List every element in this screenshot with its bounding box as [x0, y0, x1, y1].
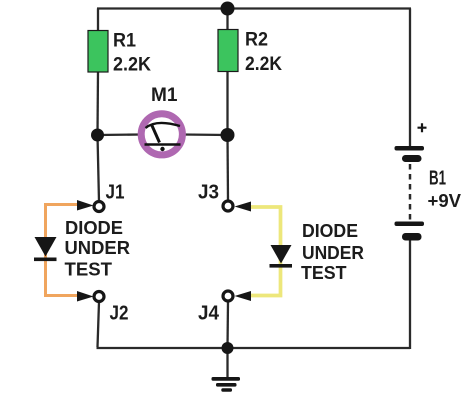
wire orange test lead (left DUT)	[46, 205, 82, 296]
battery B1 bottom cell long plate	[395, 222, 425, 227]
node C junction (right of meter)	[221, 128, 235, 142]
svg-text:J3: J3	[198, 182, 219, 204]
terminal J3	[223, 201, 233, 211]
wire node A down to J1	[98, 135, 100, 202]
wire R1 bottom to node A	[96, 71, 99, 135]
svg-text:R1: R1	[113, 30, 136, 52]
wire J4 down to node D	[226, 301, 229, 348]
svg-text:DIODE: DIODE	[302, 220, 358, 241]
svg-text:2.2K: 2.2K	[245, 53, 282, 75]
svg-text:B1: B1	[429, 168, 446, 190]
wire node C down to J3	[226, 135, 229, 201]
svg-text:+9V: +9V	[428, 190, 462, 211]
meter M1 body (purple ring)	[141, 114, 182, 155]
terminal J4	[223, 291, 233, 301]
wire top-left vertical into R1	[97, 9, 99, 32]
svg-text:UNDER: UNDER	[302, 242, 364, 263]
meter M1 bottom chord	[145, 143, 181, 145]
svg-text:J4: J4	[198, 303, 220, 325]
svg-text:M1: M1	[151, 84, 178, 106]
svg-text:TEST: TEST	[301, 262, 347, 283]
arrow into J1	[77, 200, 94, 211]
battery B1 top cell long plate	[395, 146, 425, 151]
wire ground stub from node D	[226, 348, 228, 377]
battery B1 bottom cell short plate	[402, 233, 422, 241]
diode under test right (cathode bar)	[270, 264, 293, 268]
battery B1 dashed link	[409, 164, 412, 221]
wire top horizontal	[97, 7, 411, 9]
terminal J1	[94, 202, 104, 212]
arrow into J4	[235, 291, 252, 301]
wire right vertical upper (top corner to battery)	[409, 9, 411, 148]
wire top node B down into R2	[226, 9, 228, 31]
arrow into J2	[77, 291, 94, 302]
resistor R2 body	[218, 30, 238, 72]
terminal J2	[94, 292, 104, 302]
svg-text:R2: R2	[245, 29, 268, 51]
wire R2 bottom to node C	[226, 71, 228, 135]
wire node A to meter M1 left terminal	[98, 133, 143, 136]
resistor R1 body	[88, 31, 108, 73]
meter M1 scale arc	[146, 123, 181, 128]
battery B1 top cell short plate	[402, 155, 422, 162]
node A junction (left, meter row)	[91, 129, 104, 142]
svg-text:J1: J1	[106, 182, 125, 204]
node B junction (top, R2 to top rail)	[221, 2, 235, 16]
arrow into J3	[235, 202, 252, 212]
wire bottom horizontal	[97, 347, 411, 349]
svg-text:UNDER: UNDER	[65, 237, 131, 258]
wire right vertical lower (battery to bottom corner)	[409, 239, 411, 349]
node D junction (bottom, ground)	[222, 342, 234, 354]
svg-text:2.2K: 2.2K	[113, 54, 151, 76]
battery B1 plus sign	[418, 123, 427, 132]
wire J2 down to bottom-left corner	[98, 302, 100, 347]
diode under test left (anode triangle)	[35, 237, 57, 257]
meter M1 pivot dot	[160, 147, 164, 151]
wire yellow test lead (right DUT)	[245, 207, 281, 296]
meter M1 needle	[152, 125, 160, 143]
svg-text:DIODE: DIODE	[65, 217, 123, 238]
diode under test right (anode triangle)	[271, 245, 292, 264]
ground symbol	[212, 377, 241, 381]
diode under test left (cathode bar)	[34, 258, 57, 262]
svg-text:J2: J2	[110, 303, 129, 325]
wire meter M1 right terminal to node C	[182, 133, 228, 136]
svg-text:TEST: TEST	[65, 259, 113, 280]
